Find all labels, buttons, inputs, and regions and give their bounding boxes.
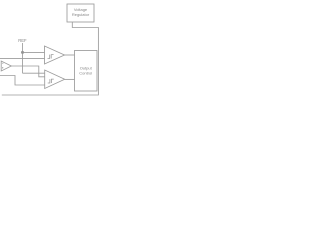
- wire U1 output to lower comparator: [11, 66, 44, 77]
- output control box: [75, 51, 98, 92]
- plus input mark U1: [2, 67, 3, 68]
- wire sense input lower channel: [0, 76, 45, 86]
- wire REF to upper comparator input: [23, 51, 45, 53]
- hysteresis symbol in U2: [48, 55, 54, 59]
- voltage regulator U4 box: [67, 4, 94, 22]
- wire sense input to upper comparator: [0, 58, 45, 60]
- minus input mark U1: [2, 62, 3, 64]
- svg-text:REF: REF: [18, 38, 27, 43]
- wire U3 output to output control: [65, 78, 75, 80]
- op-amp U1: [1, 61, 11, 71]
- wire U2 output to output control: [65, 54, 75, 56]
- svg-text:Control: Control: [79, 71, 92, 76]
- wire from voltage regulator to output control via right border: [2, 22, 99, 95]
- junction dot REF: [21, 51, 24, 54]
- comparator U3: [45, 70, 65, 89]
- wire REF to lower comparator input: [23, 72, 45, 74]
- hysteresis symbol in U3: [48, 79, 54, 83]
- node REF vertical wire: [22, 43, 24, 73]
- svg-text:Regulator: Regulator: [72, 12, 90, 17]
- comparator U2: [45, 46, 65, 64]
